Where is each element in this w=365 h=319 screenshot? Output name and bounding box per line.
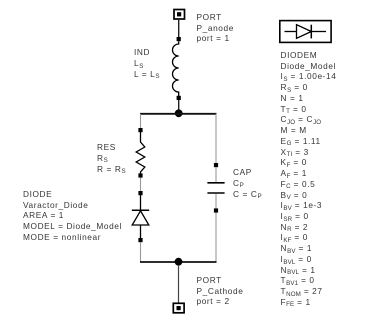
wire inductor to node: [178, 100, 180, 111]
label IND L_s: [134, 47, 160, 79]
wire node to port2: [178, 265, 180, 303]
resistor R1 body: [136, 132, 145, 174]
diode D1 body: [132, 195, 149, 238]
diode D1 pin 1: [138, 191, 142, 195]
wire port1 to inductor: [178, 19, 180, 38]
inductor L1 pin 2: [177, 96, 181, 100]
wire bottom horizontal: [140, 261, 217, 263]
label RES R_s: [97, 142, 126, 174]
wire left vertical upper: [140, 114, 142, 129]
label DIODE Varactor_Diode: [23, 189, 122, 243]
diode D1 pin 2: [138, 238, 142, 242]
label DIODEM Diode_Model parameters: [281, 50, 337, 308]
capacitor C1 plates: [207, 183, 224, 193]
label PORT P_Cathode: [197, 275, 244, 307]
wire top horizontal: [140, 113, 217, 115]
wire capacitor to bottom rail: [215, 213, 217, 262]
inductor L1 pin 1: [177, 37, 181, 41]
wire resistor to diode: [140, 178, 142, 192]
wire diode to bottom rail: [140, 242, 142, 262]
capacitor C1 lead 2: [215, 194, 217, 209]
node bottom junction: [175, 258, 183, 266]
capacitor C1 pin 1: [214, 163, 218, 167]
resistor R1 pin 1: [138, 128, 142, 132]
capacitor C1 pin 2: [214, 208, 218, 212]
wire right vertical upper: [215, 114, 217, 164]
label PORT P_anode: [197, 12, 234, 44]
node top junction: [175, 109, 183, 117]
diode model DIODEM symbol: [280, 21, 331, 43]
inductor L1 coil: [173, 41, 179, 96]
label CAP C_p: [233, 167, 262, 199]
port P_Cathode symbol: [173, 303, 184, 313]
capacitor C1 lead 1: [215, 167, 217, 182]
port P_anode symbol: [174, 10, 185, 20]
resistor R1 pin 2: [138, 173, 142, 177]
